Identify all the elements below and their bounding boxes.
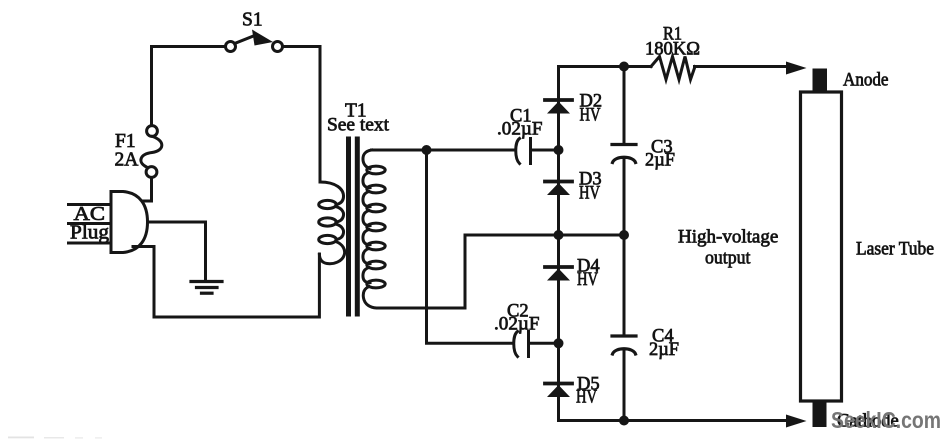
wire C2 to diode chain [529,342,559,345]
wire plug to ground [148,222,206,279]
wire secondary top lead [372,149,515,152]
wire R1 to anode arrow [695,65,789,68]
svg-text:output: output [705,248,751,269]
svg-text:2µF: 2µF [649,340,679,360]
svg-text:Laser Tube: Laser Tube [856,240,934,260]
wire plug bottom to transformer [133,247,319,318]
svg-text:180KΩ: 180KΩ [645,40,700,60]
node bottom rail C4 junction [619,416,629,426]
label Laser Tube [856,240,934,260]
node middle rail diode chain [554,230,564,240]
label C2 .02uF [494,302,540,335]
wire fuse to plug [133,178,152,202]
wire switch to transformer top [283,47,320,183]
svg-text:HV: HV [580,106,601,126]
anode arrowhead [786,62,807,75]
label D2 HV [580,92,603,126]
capacitor C4 [612,235,636,420]
svg-text:Anode: Anode [843,71,889,91]
laser tube anode electrode [813,69,828,93]
wire C1 to diode chain [531,149,559,152]
label Cathode [837,412,899,432]
label D5 HV [576,375,600,408]
faint scan residue bottom-left [8,437,102,439]
svg-text:See text: See text [327,115,390,136]
label C1 .02uF [497,107,543,140]
svg-text:2µF: 2µF [645,151,675,171]
capacitor C1 [516,139,531,164]
AC plug body [111,192,148,253]
plug prong top [69,203,112,206]
node middle rail C3/C4 [619,230,629,240]
wire bottom rail [559,419,789,422]
transformer T1 secondary winding [363,150,385,308]
label T1 See text [327,101,390,136]
svg-text:HV: HV [576,388,597,408]
svg-text:S1: S1 [242,10,263,31]
plug prong middle [69,222,112,225]
label AC Plug [70,204,109,244]
resistor R1 [651,57,695,80]
label D4 HV [577,257,600,291]
svg-text:HV: HV [577,270,598,290]
cathode arrowhead [786,415,807,428]
node junction secondary-C1/C2 branch [422,145,432,155]
switch S1 [226,30,283,52]
label C3 2uF [645,138,675,171]
node C2-D4-D5 junction [554,338,564,348]
svg-text:HV: HV [579,184,600,204]
label C4 2uF [649,327,679,361]
wire C2 branch vertical [427,150,514,343]
watermark SeekIC.com [831,407,941,433]
fuse F1 [141,126,162,178]
diode D2 [545,100,572,114]
label D3 HV [579,170,602,204]
wire middle rail [465,234,625,237]
wire top horizontal to switch [152,45,226,48]
svg-text:2A: 2A [115,150,139,171]
transformer T1 core [349,139,358,314]
wire secondary bottom lead [383,235,465,308]
wire top rail [559,65,652,68]
laser tube cathode electrode [813,401,827,427]
transformer T1 primary winding [319,182,345,264]
diode D3 [545,182,572,196]
svg-text:High-voltage: High-voltage [678,227,778,248]
wire top-left vertical [150,47,153,126]
label S1 [242,10,263,31]
node top rail C3 junction [619,62,629,72]
wire diode chain vertical [557,67,560,421]
diode D4 [545,267,572,281]
laser tube body [801,92,842,401]
label Anode [843,71,889,91]
plug prong bottom [69,242,112,245]
svg-text:SeekIC.com: SeekIC.com [831,407,941,433]
label High-voltage output [678,227,778,269]
diode D5 [545,384,572,398]
node C1-D2-D3 junction [554,145,564,155]
svg-text:.02µF: .02µF [494,315,540,335]
label R1 180KOhm [645,25,700,60]
svg-text:.02µF: .02µF [497,120,543,140]
capacitor C3 [612,67,636,236]
ground [191,282,222,294]
capacitor C2 [514,332,529,357]
label F1 2A [115,131,139,171]
svg-text:Plug: Plug [70,223,109,244]
